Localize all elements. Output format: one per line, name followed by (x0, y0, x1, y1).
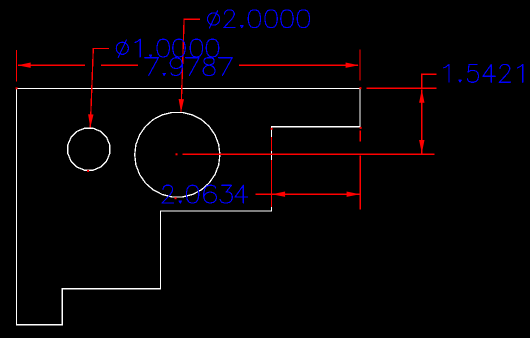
arrowhead 2.0634 left (272, 192, 285, 197)
defpoint large circle bottom (175, 197, 177, 199)
dim 2.0634 right extension line upper dash (359, 131, 361, 142)
dim 2.0634 right extension line lower dash (359, 156, 361, 210)
dim 1.5421 bottom extension line from circle centre (182, 153, 434, 155)
defpoint top-right corner (359, 87, 361, 89)
dim 7.9787 right extension line (359, 50, 361, 81)
arrowhead leader dia 2.0000 (179, 99, 184, 112)
dim text 1.5421 (444, 65, 523, 83)
defpoint circle centre (176, 153, 178, 155)
hole circle large (dia 2.0000) (135, 112, 220, 197)
dim 2.0634 dimension line (272, 193, 360, 195)
defpoint top-left corner (16, 87, 18, 89)
dim 7.9787 dimension line segment a (18, 64, 85, 66)
dim 7.9787 left extension line (15, 50, 17, 82)
arrowhead 7.9787 right (346, 63, 359, 68)
arrowhead 1.5421 down (419, 140, 424, 153)
dim text 2.0634 (162, 185, 247, 203)
leader dia 2.0000 (181, 19, 200, 112)
arrowhead 7.9787 left (18, 63, 31, 68)
arrowhead leader dia 1.0000 (88, 114, 93, 127)
dim 1.5421 text hook (422, 74, 437, 89)
dim text 7.9787 (145, 58, 232, 76)
leader dia 1.0000 (90, 48, 109, 127)
dim 7.9787 dimension line segment b (101, 64, 138, 66)
defpoint notch right corner (360, 127, 362, 129)
dim 1.5421 top extension line (366, 87, 436, 89)
dim 1.5421 dimension line (421, 89, 423, 153)
dim 2.0634 left extension line lower dash (271, 160, 273, 207)
dim 2.0634 text tail (256, 193, 271, 195)
hole circle small (dia 1.0000) (68, 128, 110, 170)
arrowhead 2.0634 right (347, 192, 360, 197)
defpoint small circle bottom (87, 170, 89, 172)
dim 7.9787 dimension line segment c (239, 64, 358, 66)
arrowhead 1.5421 up (419, 90, 424, 103)
dim 2.0634 left extension line upper dash (271, 137, 273, 151)
dim text dia 1.0000 (116, 39, 218, 57)
dim text dia 2.0000 (208, 10, 310, 28)
defpoint notch left corner (271, 128, 273, 130)
part outline (17, 89, 361, 325)
